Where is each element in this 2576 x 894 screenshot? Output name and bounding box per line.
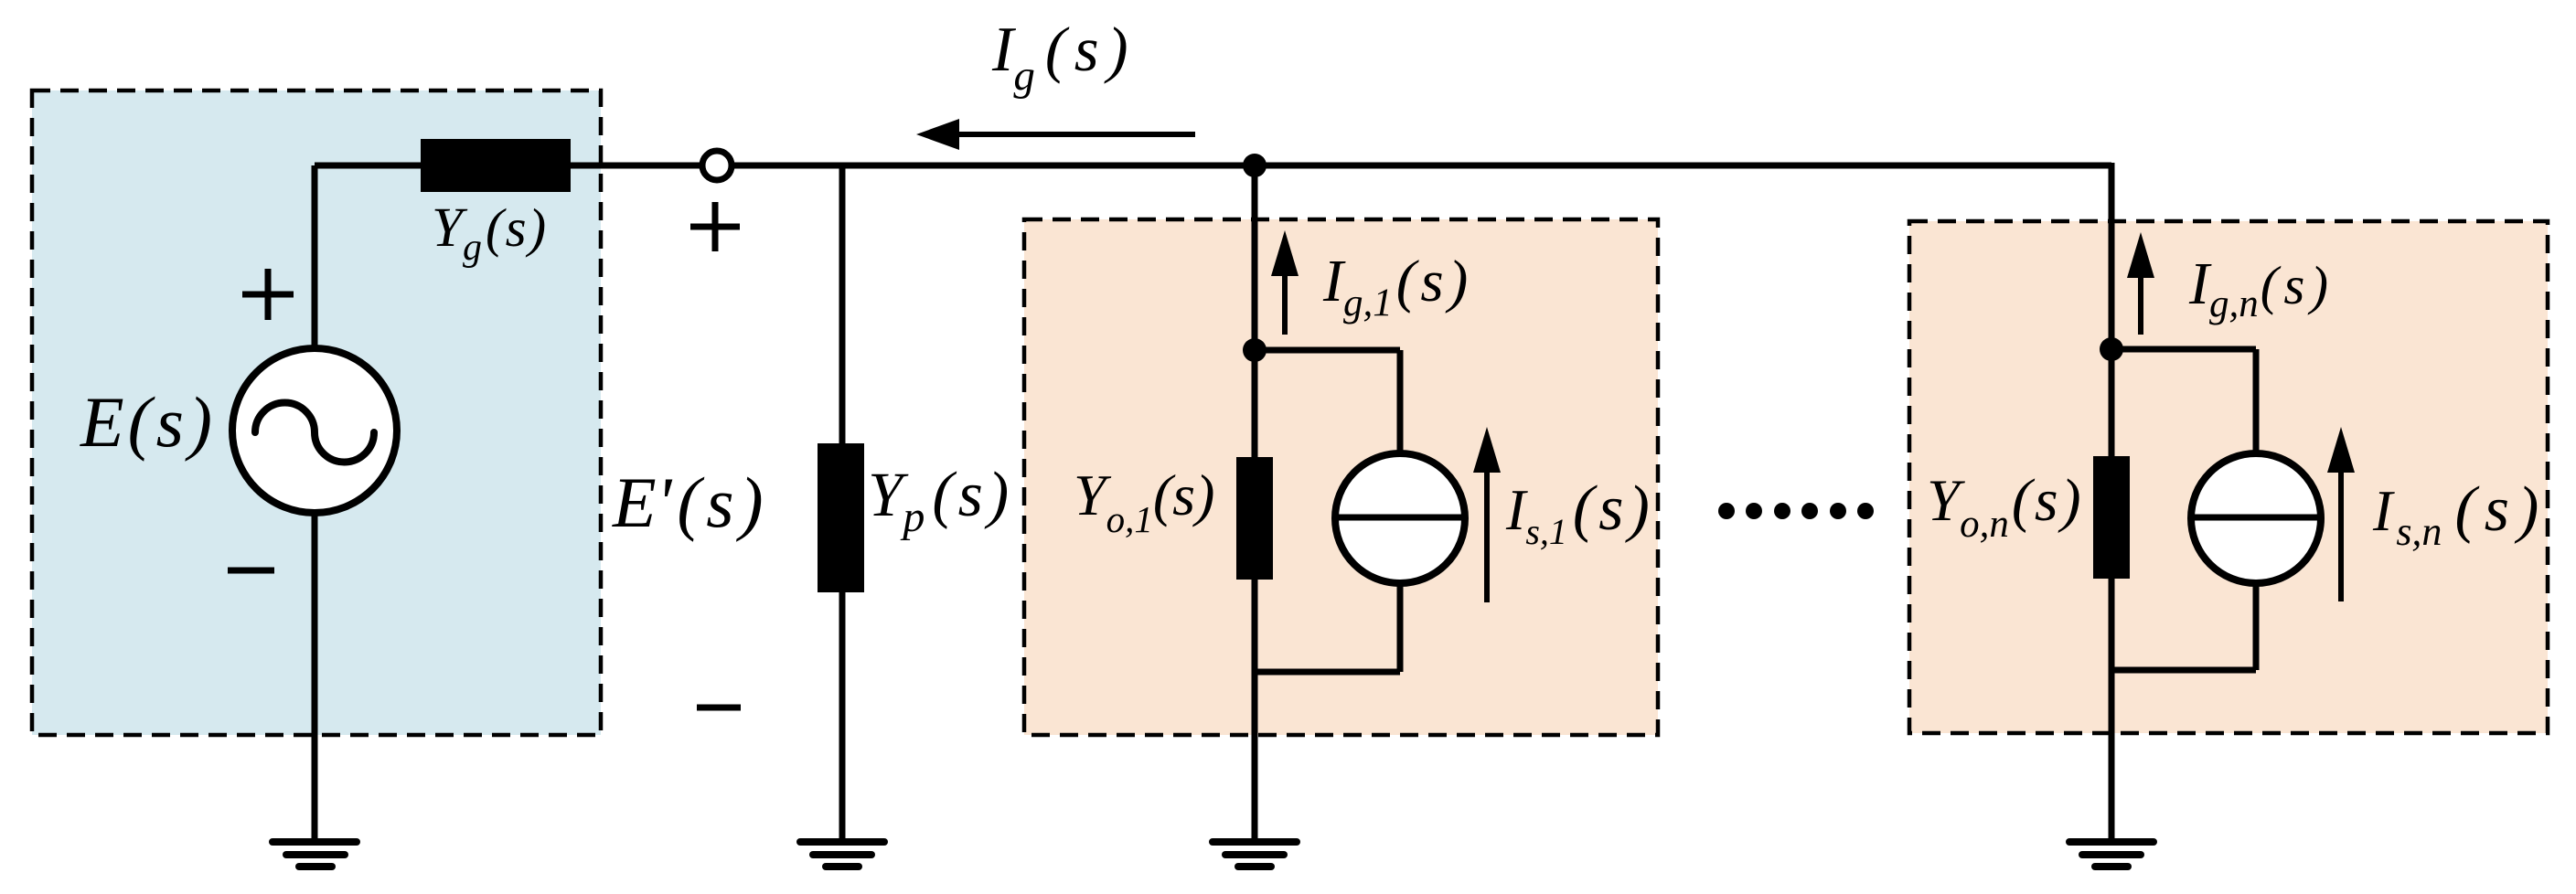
ground of load 1 [1213,842,1297,867]
current arrow Ign [2127,232,2154,335]
wire: load 1 source vertical [1397,350,1404,672]
resistor Yon(s) [2093,456,2130,579]
node junction dot load n [2100,337,2123,361]
current source Isn [2191,453,2321,583]
node: open terminal circle [702,151,732,180]
resistor Yo1(s) [1236,457,1273,580]
current label Ig(s) arrow [916,119,1195,150]
node junction dot on bus [1243,154,1267,177]
plus sign at terminal [690,202,740,251]
current arrow Isn [2327,427,2355,601]
load block n background (orange dashed box) [1909,221,2548,733]
ground of Yp branch [800,842,884,867]
current source Is1 [1335,453,1465,583]
resistor Yg(s) [421,139,571,192]
svg-text:Ig(s): Ig(s) [991,15,1137,100]
current arrow Is1 [1473,427,1501,602]
wire: load 1 lower horizontal [1255,669,1400,676]
ac voltage source E(s) [232,348,397,513]
current arrow Ig1 [1271,230,1299,335]
svg-text:E(s): E(s) [80,382,217,462]
resistor Yp(s) [818,443,864,592]
minus sign of E(s) [228,568,274,574]
wire: load 1 branch vertical [1252,165,1258,842]
svg-text:E'(s): E'(s) [612,463,769,542]
wire: Yp branch vertical [839,165,846,842]
wire: load 1 upper horizontal [1255,347,1400,354]
load block 1 background (orange dashed box) [1024,219,1658,735]
wire: load n lower horizontal [2111,667,2256,674]
wire: load n source vertical [2253,349,2260,670]
wire: main horizontal bus [315,163,2111,169]
wire: load n branch vertical [2109,163,2115,842]
wire: load n upper horizontal [2111,346,2256,353]
minus sign at terminal [697,705,741,711]
ground of E(s) branch [273,842,357,867]
node junction dot load 1 [1243,338,1267,362]
svg-text:Yp(s): Yp(s) [868,460,1013,541]
ellipsis dots between loads [1718,503,1874,519]
source block background (blue dashed box) [32,90,601,735]
plus sign of E(s) [242,269,294,320]
ground of load n [2069,842,2154,867]
wire: E(s) branch vertical [312,165,318,842]
